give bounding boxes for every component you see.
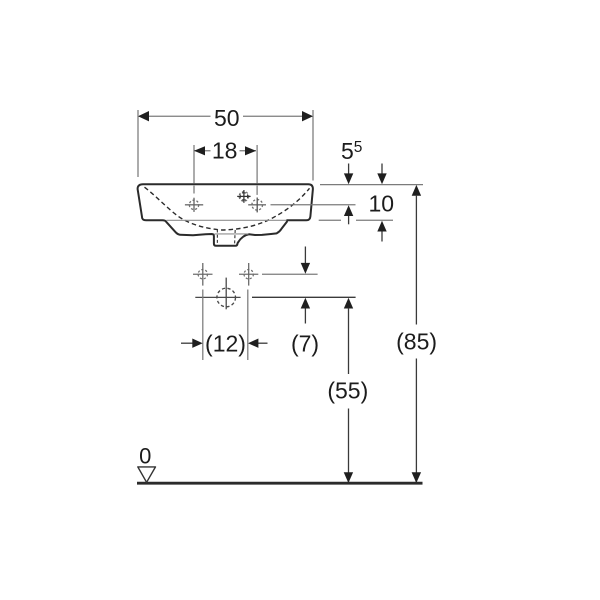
drain hole — [195, 278, 240, 310]
right tap hole — [248, 198, 266, 213]
dimension (7) fixing holes to drain — [291, 247, 319, 357]
svg-text:10: 10 — [369, 191, 395, 217]
svg-text:0: 0 — [139, 443, 151, 468]
leader line from basin top edge — [320, 184, 423, 186]
basin body outline (front view) — [138, 184, 313, 246]
svg-text:18: 18 — [212, 138, 238, 164]
left tap hole — [185, 198, 203, 212]
svg-text:(55): (55) — [327, 378, 368, 404]
dimension 18 — [194, 138, 257, 195]
apron edge seen through trap — [215, 233, 249, 235]
dimension (55) drain height — [327, 298, 368, 483]
leader line from tap hole centre — [271, 204, 356, 206]
svg-text:(7): (7) — [291, 330, 319, 356]
leader line at basin bottom edge — [167, 219, 287, 221]
leader line from drain centre — [252, 296, 356, 298]
svg-text:55: 55 — [341, 138, 362, 164]
bowl inner edge (hidden, dashed) — [145, 187, 310, 230]
dimension 50 — [138, 105, 313, 181]
optional tap hole marker — [237, 190, 250, 203]
dimension 10 (basin body height) — [369, 164, 395, 242]
right fixing hole — [239, 263, 258, 286]
svg-text:(12): (12) — [205, 330, 246, 356]
drain trap hidden edge left (dashed) — [216, 230, 218, 246]
dimension 5.5 (top edge to tap hole centre) — [341, 138, 362, 225]
datum level 0 — [138, 443, 156, 482]
leader line from fixing holes — [262, 273, 318, 275]
drain trap hidden edge right (dashed) — [234, 230, 237, 245]
left fixing hole — [193, 263, 213, 286]
svg-text:(85): (85) — [396, 329, 437, 355]
svg-text:50: 50 — [214, 105, 240, 131]
floor baseline — [137, 482, 423, 485]
dimension (85) rim height — [396, 185, 437, 483]
dimension (12) fixing hole spacing — [181, 290, 268, 361]
